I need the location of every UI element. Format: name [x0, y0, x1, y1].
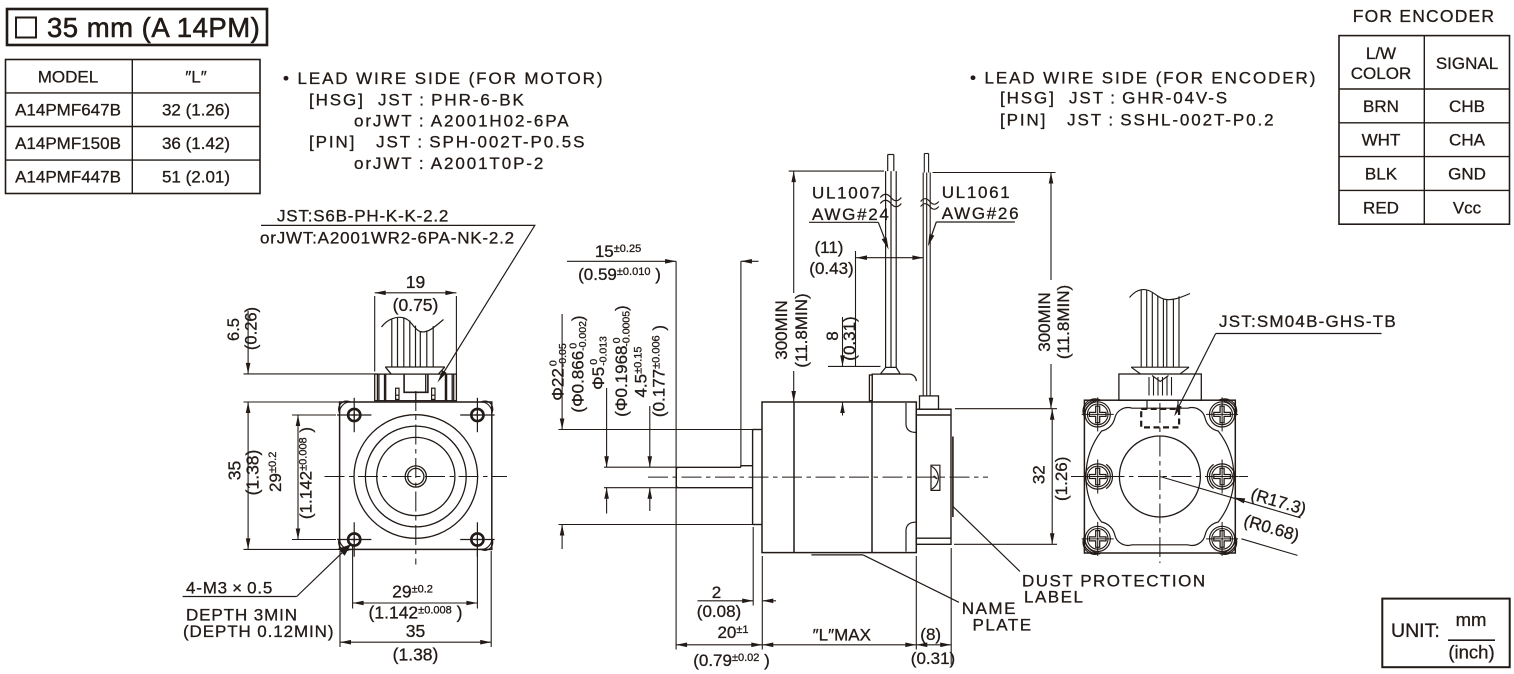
svg-text:(1.26): (1.26) — [1052, 457, 1071, 501]
svg-text:51 (2.01): 51 (2.01) — [162, 168, 230, 187]
svg-text:orJWT:A2001WR2-6PA-NK-2.2: orJWT:A2001WR2-6PA-NK-2.2 — [260, 229, 515, 248]
rear screw middle-left — [1082, 460, 1114, 494]
svg-text:BLK: BLK — [1365, 165, 1398, 184]
side view motor wire boot — [881, 367, 901, 374]
svg-text:19: 19 — [406, 272, 425, 292]
svg-text:Φ22 0-0.05: Φ22 0-0.05 — [548, 343, 570, 401]
front view pilot circles — [354, 415, 478, 539]
front view cable boot trapezoid — [385, 367, 444, 374]
front view shaft circles — [405, 466, 426, 487]
svg-text:(R0.68): (R0.68) — [1242, 511, 1302, 545]
svg-text:A14PMF150B: A14PMF150B — [15, 134, 121, 153]
rear connector housing — [1119, 374, 1201, 400]
rear view flange square — [1084, 400, 1235, 553]
svg-text:WHT: WHT — [1362, 131, 1401, 150]
rear view bearing circle — [1119, 436, 1200, 517]
rear screw top-right — [1206, 397, 1238, 431]
svg-text:SIGNAL: SIGNAL — [1436, 54, 1498, 73]
svg-text:[HSG] JST : PHR-6-BK: [HSG] JST : PHR-6-BK — [309, 90, 526, 109]
svg-text:COLOR: COLOR — [1351, 64, 1411, 83]
dimension phi5 shaft diameter — [588, 305, 633, 513]
svg-text:[HSG] JST : GHR-04V-S: [HSG] JST : GHR-04V-S — [1000, 89, 1229, 108]
svg-text:orJWT : A2001H02-6PA: orJWT : A2001H02-6PA — [354, 112, 570, 131]
front view motor connector body — [375, 374, 457, 402]
svg-text:(0.75): (0.75) — [393, 295, 439, 315]
rear screw bottom-right — [1206, 522, 1238, 556]
svg-text:BRN: BRN — [1363, 97, 1399, 116]
svg-text:36 (1.42): 36 (1.42) — [162, 134, 230, 153]
UL1007 AWG#24 label — [809, 184, 891, 250]
rear ribbon cable — [1130, 290, 1191, 368]
side view rear endbell tabs — [906, 403, 916, 432]
side view encoder connector — [920, 396, 939, 409]
svg-text:(0.31): (0.31) — [911, 649, 955, 668]
side view motor lead wires — [880, 155, 901, 368]
side view center axis — [648, 476, 988, 478]
svg-text:JST:S6B-PH-K-K-2.2: JST:S6B-PH-K-K-2.2 — [277, 207, 449, 226]
svg-text:4.5±0.15: 4.5±0.15 — [632, 346, 651, 397]
svg-text:MODEL: MODEL — [38, 68, 98, 87]
svg-text:(1.142±0.008 ): (1.142±0.008 ) — [369, 603, 463, 623]
rear view corner fillet arcs — [1083, 399, 1237, 555]
UL1061 AWG#26 label — [928, 183, 1020, 246]
dimension 15 (0.59) shaft flat length — [567, 242, 759, 650]
svg-text:(DEPTH 0.12MIN): (DEPTH 0.12MIN) — [183, 622, 334, 641]
svg-text:(0.31): (0.31) — [840, 316, 859, 360]
dimension 20 (0.79) shaft length — [676, 623, 770, 670]
svg-text:CHA: CHA — [1449, 131, 1486, 150]
svg-text:• LEAD WIRE SIDE (FOR ENCODER): • LEAD WIRE SIDE (FOR ENCODER) — [970, 68, 1317, 87]
dimension phi22 boss diameter — [548, 314, 754, 549]
dimension 19 (0.75) connector width — [375, 272, 457, 374]
svg-text:CHB: CHB — [1449, 97, 1485, 116]
name plate indicator and leader — [811, 555, 1032, 635]
front view corner fillet arcs — [339, 401, 493, 550]
svg-text:6.5: 6.5 — [225, 318, 243, 341]
JST:SM04B-GHS-TB label — [1174, 312, 1397, 416]
dimension 4.5 shaft flat height — [604, 325, 676, 511]
svg-text:RED: RED — [1363, 198, 1399, 217]
unit box — [1382, 599, 1509, 668]
svg-text:300MIN: 300MIN — [772, 300, 791, 360]
svg-text:• LEAD WIRE SIDE (FOR MOTOR): • LEAD WIRE SIDE (FOR MOTOR) — [283, 69, 604, 88]
side view dust protection label edge — [952, 437, 954, 518]
model table — [6, 60, 261, 194]
svg-text:(0.177±0.006 ): (0.177±0.006 ) — [650, 325, 669, 417]
svg-text:20±1: 20±1 — [717, 623, 748, 642]
svg-text:FOR ENCODER: FOR ENCODER — [1353, 6, 1496, 26]
svg-text:[PIN] JST : SPH-002T-P0.5S: [PIN] JST : SPH-002T-P0.5S — [309, 133, 586, 152]
svg-text:A14PMF647B: A14PMF647B — [15, 101, 121, 120]
rear view centerlines — [1071, 403, 1248, 563]
svg-text:32 (1.26): 32 (1.26) — [162, 101, 230, 120]
svg-text:(0.59±0.010 ): (0.59±0.010 ) — [578, 265, 661, 284]
svg-text:Φ5 0-0.013: Φ5 0-0.013 — [588, 336, 610, 390]
bottom extension lines side view — [753, 527, 951, 665]
front view: motor flange square — [340, 402, 492, 549]
front view screw hole bottom-left — [337, 522, 371, 556]
svg-text:15±0.25: 15±0.25 — [595, 242, 641, 261]
dimension 29 (1.142) hole pitch, bottom — [353, 546, 478, 623]
svg-text:(11.8MIN): (11.8MIN) — [792, 293, 811, 367]
svg-text:(8): (8) — [920, 625, 941, 644]
radius leader (R17.3)(R0.68) — [1160, 477, 1308, 556]
dimension 35 (1.38) flange width, bottom — [340, 551, 491, 665]
rear view housing contour — [1086, 408, 1234, 546]
dimension 29 (1.142) hole pitch, left — [266, 415, 336, 540]
svg-text:(inch): (inch) — [1448, 642, 1494, 663]
rear screw middle-right — [1206, 460, 1238, 494]
note 4-M3 x 0.5 depth — [183, 544, 351, 641]
dimension (8) (0.31) encoder depth — [911, 625, 955, 668]
rear screw top-left — [1082, 397, 1114, 431]
side view encoder side hole — [931, 465, 940, 490]
dimension (11) wire offset — [809, 238, 923, 366]
connector latch feet — [396, 388, 399, 399]
svg-text:″L″MAX: ″L″MAX — [813, 626, 871, 645]
svg-text:GND: GND — [1448, 165, 1486, 184]
svg-text:L/W: L/W — [1366, 44, 1396, 63]
svg-text:2: 2 — [712, 583, 721, 602]
svg-text:UNIT:: UNIT: — [1391, 620, 1440, 642]
rear cable flare — [1131, 367, 1189, 374]
svg-text:LABEL: LABEL — [1024, 588, 1084, 607]
svg-text:(0.08): (0.08) — [697, 602, 741, 621]
svg-text:(1.142±0.008 ): (1.142±0.008 ) — [297, 427, 316, 519]
dust protection label leader — [953, 507, 1207, 607]
dimension 8 (0.31) connector height — [823, 316, 881, 415]
break mark motor wire — [880, 194, 901, 201]
svg-text:(1.38): (1.38) — [243, 450, 263, 496]
side view encoder lead wires — [921, 154, 939, 396]
svg-text:35 mm (A 14PM): 35 mm (A 14PM) — [47, 12, 260, 43]
front view screw hole top-right — [460, 398, 494, 432]
lead wire side (for motor) text block — [283, 69, 604, 173]
svg-text:[PIN] JST : SSHL-002T-P0.2: [PIN] JST : SSHL-002T-P0.2 — [1000, 110, 1275, 129]
svg-text:″L″: ″L″ — [185, 68, 207, 87]
svg-text:A14PMF447B: A14PMF447B — [15, 168, 121, 187]
svg-text:UL1007: UL1007 — [812, 184, 882, 203]
side view motor body — [762, 402, 916, 553]
svg-text:(0.26): (0.26) — [243, 307, 261, 350]
dimension 6.5 (0.26) connector height — [225, 307, 377, 374]
rear connector neck — [1147, 400, 1178, 409]
svg-text:300MIN: 300MIN — [1035, 292, 1054, 352]
front view centerlines — [325, 391, 508, 565]
rear screw bottom-left — [1082, 522, 1114, 556]
svg-text:(11.8MIN): (11.8MIN) — [1054, 285, 1073, 359]
dimension 300MIN motor leads — [772, 171, 884, 402]
leader from note to motor connector — [261, 225, 535, 379]
svg-text:mm: mm — [1456, 609, 1487, 630]
rear encoder connector dashed outline — [1141, 409, 1179, 428]
svg-text:AWG#24: AWG#24 — [812, 205, 891, 224]
svg-text:AWG#26: AWG#26 — [942, 204, 1021, 223]
side view shaft — [676, 466, 752, 488]
front view screw hole bottom-right — [460, 522, 494, 556]
side view motor connector — [869, 374, 916, 401]
front view screw hole top-left — [337, 398, 371, 432]
svg-text:4-M3 × 0.5: 4-M3 × 0.5 — [186, 579, 273, 598]
svg-text:PLATE: PLATE — [973, 616, 1033, 635]
connector cavity — [404, 375, 428, 393]
title block: 35 mm (A 14PM) — [7, 9, 267, 45]
dimension 300MIN encoder leads — [933, 173, 1074, 409]
side view front boss — [753, 430, 762, 525]
for encoder table — [1339, 6, 1510, 224]
side view encoder housing — [916, 409, 951, 544]
svg-text:(0.43): (0.43) — [809, 259, 853, 278]
svg-text:29±0.2: 29±0.2 — [392, 582, 433, 602]
svg-text:Vcc: Vcc — [1453, 198, 1482, 217]
svg-text:UL1061: UL1061 — [942, 183, 1012, 202]
svg-text:35: 35 — [406, 621, 425, 641]
lead wire side (for encoder) text block — [970, 68, 1317, 129]
motor connector note JST:S6B-PH-K-K-2.2 — [260, 207, 535, 383]
svg-text:29±0.2: 29±0.2 — [266, 452, 285, 492]
dimension L MAX body length — [762, 626, 916, 648]
break mark encoder wire — [921, 199, 939, 205]
svg-text:(0.79±0.02 ): (0.79±0.02 ) — [693, 651, 770, 670]
svg-text:32: 32 — [1030, 465, 1049, 484]
svg-text:(Φ0.866 0-0.002): (Φ0.866 0-0.002) — [568, 315, 590, 412]
svg-text:(1.38): (1.38) — [393, 645, 439, 665]
svg-text:35: 35 — [225, 461, 245, 480]
svg-text:JST:SM04B-GHS-TB: JST:SM04B-GHS-TB — [1219, 312, 1397, 331]
svg-text:(11): (11) — [815, 238, 844, 257]
front view lead wire bundle — [382, 317, 444, 367]
dimension 2 (0.08) boss protrusion — [697, 583, 776, 621]
dimension 35 (1.38) flange height, left — [225, 402, 342, 549]
dimension 32 (1.26) encoder height — [954, 409, 1071, 545]
svg-text:(Φ0.1968 0-0.0005): (Φ0.1968 0-0.0005) — [611, 305, 633, 416]
svg-text:orJWT : A2001T0P-2: orJWT : A2001T0P-2 — [354, 154, 545, 173]
